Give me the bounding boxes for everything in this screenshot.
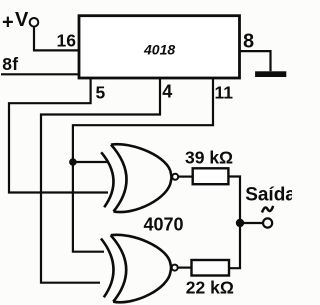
gate U2b XNOR bottom <box>101 235 171 302</box>
wire gate2 output to R2 <box>178 267 192 269</box>
wire R1 to node <box>228 177 240 269</box>
wire pin5 to gate1 lower input <box>9 78 108 193</box>
svg-text:4070: 4070 <box>144 215 184 235</box>
wire pin8 to ground <box>240 51 271 71</box>
ac symbol ~ <box>262 206 273 213</box>
gate U2a XNOR top <box>101 144 171 212</box>
ground <box>255 71 286 77</box>
svg-text:V: V <box>15 9 29 31</box>
svg-text:8: 8 <box>243 31 254 53</box>
resistor R2 22k <box>192 260 230 276</box>
wire gate1 output to R1 <box>178 176 193 178</box>
wire pin11 to gate2 upper input <box>73 78 213 252</box>
wire +V to pin16 <box>34 27 78 51</box>
wire node to terminal <box>240 222 263 224</box>
IC U1 4018 <box>79 16 240 78</box>
svg-text:f: f <box>12 54 18 74</box>
terminal +V <box>30 18 39 27</box>
wire 8f input <box>1 73 78 75</box>
bubble gate1 output <box>172 174 178 180</box>
junction node output <box>236 219 244 227</box>
terminal Saida <box>263 218 272 227</box>
svg-text:4: 4 <box>162 82 172 102</box>
bubble gate2 output <box>172 265 178 271</box>
wire gate1 upper input <box>73 161 109 163</box>
resistor R1 39k <box>193 168 229 184</box>
svg-text:39 kΩ: 39 kΩ <box>185 148 233 168</box>
svg-text:Saída: Saída <box>245 185 292 206</box>
wire pin4 to gate2 lower input <box>41 78 160 283</box>
svg-text:4018: 4018 <box>143 42 175 58</box>
svg-text:5: 5 <box>96 83 106 103</box>
svg-text:22 kΩ: 22 kΩ <box>186 277 234 297</box>
svg-text:+: + <box>2 11 14 33</box>
junction node pin11/gate1 <box>69 158 77 166</box>
svg-text:8: 8 <box>2 54 12 74</box>
svg-text:16: 16 <box>57 31 77 51</box>
svg-text:11: 11 <box>215 83 234 103</box>
